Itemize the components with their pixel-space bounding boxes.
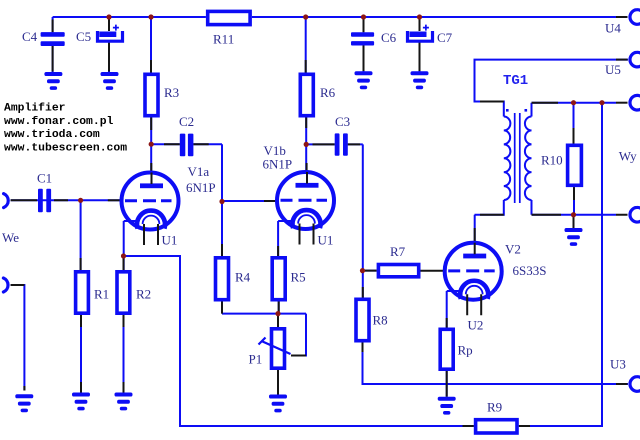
ground under C5 — [101, 72, 119, 90]
wire black stub R7 — [364, 270, 445, 272]
svg-text:TG1: TG1 — [503, 73, 528, 89]
capacitor C2 — [180, 134, 186, 157]
ground under input2 — [15, 394, 33, 412]
node V1b grid R4 — [219, 199, 224, 204]
svg-text:U1: U1 — [318, 232, 334, 247]
wire black stub R3 — [150, 60, 152, 130]
wire input2 to ground — [11, 285, 25, 391]
resistor R6 — [300, 74, 313, 115]
tube V1b cathode arc — [293, 210, 321, 228]
wire TG1 primary bottom to V2 — [475, 200, 504, 215]
resistor R9 — [476, 420, 517, 433]
svg-text:Rp: Rp — [458, 343, 473, 358]
wire input We to grid V1a — [11, 199, 122, 201]
wire R8 to U3 line — [363, 343, 629, 385]
svg-text:www.fonar.com.pl: www.fonar.com.pl — [4, 116, 114, 128]
svg-text:R8: R8 — [373, 313, 388, 328]
node rail C6 — [361, 14, 366, 19]
svg-text:C1: C1 — [37, 171, 52, 186]
wire black stub U4 connector — [616, 16, 628, 18]
wire black stub R4 — [221, 244, 223, 314]
svg-text:C3: C3 — [335, 114, 350, 129]
connector Wy bottom — [630, 207, 640, 222]
capacitor C4 — [41, 32, 65, 37]
wire black stub P1 wiper — [291, 355, 306, 357]
node V1a grid R1 — [78, 198, 83, 203]
resistor R4 — [216, 258, 229, 300]
wire C3 node row — [306, 143, 363, 145]
wire black stub C5 — [108, 20, 110, 72]
svg-text:U2: U2 — [468, 318, 484, 333]
wire C3 to R7/R8 node — [363, 144, 377, 297]
resistor R8 — [356, 299, 369, 340]
wire black stub C1 input — [11, 199, 68, 201]
svg-text:www.tubescreen.com: www.tubescreen.com — [4, 143, 127, 155]
wire feedback bottom left — [124, 256, 474, 426]
tube V2 cathode arc — [460, 281, 488, 299]
svg-text:V1a: V1a — [188, 164, 210, 179]
wire C2 to V1b grid and R4 — [222, 144, 277, 256]
tube V2 heater legs — [467, 294, 481, 315]
wire black stub C3 — [313, 143, 361, 145]
resistor Rp — [440, 329, 453, 369]
connector U4 — [630, 10, 640, 25]
wire R5 bottom lead — [278, 302, 280, 314]
tube V2 heater dome — [466, 286, 483, 294]
wire TG1 ground lead — [573, 215, 575, 228]
wire R3 leads — [150, 17, 152, 173]
wire C7 leads — [419, 17, 421, 72]
transformer TG1 primary winding — [504, 117, 511, 201]
wire C5 leads — [108, 17, 110, 73]
resistor R5 — [272, 258, 285, 300]
wire V2 cathode tap to Rp — [447, 291, 461, 328]
tube V1a grid dashes — [125, 199, 172, 202]
node rail C5 — [106, 14, 111, 19]
wire black stub U5 connector — [616, 59, 628, 61]
svg-text:V2: V2 — [505, 242, 521, 257]
wire TG1 secondary bottom line — [532, 200, 617, 215]
svg-text:C2: C2 — [179, 114, 194, 129]
connector We input1 — [4, 194, 9, 208]
tube V2 grid dashes — [448, 269, 495, 272]
svg-text:Amplifier: Amplifier — [4, 102, 66, 114]
svg-text:6N1P: 6N1P — [186, 180, 216, 195]
ground under C4 — [44, 72, 62, 90]
wire C6 leads — [363, 17, 365, 72]
svg-text:C4: C4 — [22, 29, 38, 44]
svg-text:R2: R2 — [136, 287, 151, 302]
wire black stub C7 — [419, 20, 421, 72]
wire black stub R2 — [123, 258, 125, 394]
resistor R2 — [117, 272, 130, 313]
node rail C7 — [417, 14, 422, 19]
wire black stub U3 connector — [616, 383, 628, 385]
wire black stub R8 — [362, 287, 364, 352]
svg-text:P1: P1 — [249, 352, 263, 367]
svg-text:U1: U1 — [162, 233, 178, 248]
svg-text:R6: R6 — [320, 85, 336, 100]
resistor R7 — [378, 265, 418, 277]
svg-text:R7: R7 — [390, 244, 406, 259]
connector U5 — [630, 52, 640, 67]
wire R1 leads — [80, 200, 82, 394]
wire C4 leads — [52, 17, 54, 73]
capacitor C3 — [335, 133, 340, 155]
wire black stub R1 — [80, 258, 82, 394]
wire black stub C6 — [363, 20, 365, 72]
svg-text:U4: U4 — [605, 21, 621, 36]
node V1a anode C2 — [149, 142, 154, 147]
tube V1b grid dashes — [281, 199, 328, 202]
potentiometer P1 wiper arrow — [259, 338, 291, 355]
resistor R10 — [568, 145, 582, 185]
wire R2 bottom lead — [123, 315, 125, 394]
ground under R2 — [115, 393, 133, 411]
node rail R6 — [303, 14, 308, 19]
wire V1a cathode tap to R2 — [124, 221, 138, 270]
wire black stub V1a grid — [108, 199, 122, 201]
ground under C7 — [411, 71, 429, 89]
connector Wy top — [630, 95, 640, 110]
tube V1b heater legs — [300, 224, 314, 245]
node rail R3 — [148, 14, 153, 19]
tube V1b heater dome — [298, 215, 315, 223]
node secondary R10 bottom — [571, 212, 576, 217]
wire R6 leads — [305, 17, 308, 173]
ground under C6 — [355, 71, 373, 89]
wire black stub P1 — [277, 314, 279, 395]
capacitor C5 electrolytic — [98, 25, 123, 42]
ground under R1 — [72, 393, 90, 411]
wire black stub R6 — [305, 60, 308, 128]
wire black stub C4 — [52, 20, 54, 72]
wire V1b cathode tap to R5 — [278, 221, 292, 256]
tube V2 anode — [463, 243, 486, 259]
wire black stub V1b anode — [306, 163, 308, 173]
wire V2 anode riser — [474, 215, 476, 243]
tube V2 envelope — [445, 243, 502, 300]
svg-text:R4: R4 — [235, 270, 251, 285]
connector We input2 — [3, 278, 8, 292]
capacitor C1 — [38, 189, 43, 213]
wire black stub R10 — [573, 128, 576, 200]
svg-text:U5: U5 — [605, 62, 621, 77]
node secondary R10 top — [571, 100, 576, 105]
capacitor C6 — [351, 32, 374, 37]
wire black stub input2 — [11, 285, 25, 391]
svg-text:C6: C6 — [381, 30, 397, 45]
node R4 R5 P1 — [275, 311, 280, 316]
tube V1a anode — [140, 173, 163, 189]
tube V1b envelope — [277, 172, 334, 229]
wire black stub TG1 secondary — [532, 103, 562, 215]
svg-text:R1: R1 — [94, 287, 109, 302]
wire U5 to TG1 primary top — [475, 60, 629, 117]
svg-text:C5: C5 — [76, 29, 91, 44]
transformer TG1 core — [515, 113, 520, 203]
svg-text:6S33S: 6S33S — [513, 263, 547, 278]
wire black stub R5 — [277, 246, 280, 312]
wire R4/R5/P1 junction row — [222, 314, 306, 356]
wire black stub TG1 primary — [480, 102, 504, 215]
svg-text:R11: R11 — [213, 32, 234, 47]
tube V1a heater legs — [144, 224, 158, 245]
svg-text:Wy: Wy — [619, 149, 637, 164]
tube V1a cathode arc — [137, 211, 165, 229]
wire R4 bottom lead — [221, 302, 223, 314]
svg-text:R10: R10 — [541, 153, 563, 168]
svg-text:R3: R3 — [164, 85, 179, 100]
wire black stub TG1 ground — [573, 216, 575, 228]
wire black stub Wy top connector — [616, 102, 628, 104]
wire R10 leads — [573, 103, 576, 215]
wire C2 node row — [151, 143, 222, 145]
wire Rp bottom lead — [446, 371, 448, 397]
wire R9 to output feedback riser — [519, 103, 602, 426]
ground under TG1 secondary — [565, 228, 583, 246]
node V1a cathode R2 — [121, 253, 126, 258]
connector U3 — [630, 377, 640, 392]
transformer TG1 secondary winding — [525, 117, 532, 201]
svg-text:U3: U3 — [610, 357, 626, 372]
node secondary feedback — [599, 100, 604, 105]
svg-text:We: We — [2, 230, 19, 245]
wire black stub C2 — [164, 143, 209, 145]
node R7 R8 — [360, 268, 365, 273]
svg-text:R5: R5 — [291, 270, 306, 285]
tube V1a heater dome — [143, 216, 160, 224]
wire black stub Wy bottom connector — [616, 214, 628, 216]
wire black stub R9 — [463, 425, 531, 427]
transformer TG1 polarity dots — [506, 109, 527, 112]
potentiometer P1 body — [272, 329, 285, 368]
svg-text:www.trioda.com: www.trioda.com — [4, 129, 100, 141]
ground under P1 — [269, 395, 287, 413]
resistor R1 — [76, 272, 89, 313]
node V1b anode C3 — [304, 142, 309, 147]
wire top B+ rail — [53, 16, 616, 18]
svg-text:6N1P: 6N1P — [263, 157, 293, 172]
wire black stub V2 anode — [474, 228, 476, 243]
wire black stub V1a anode — [150, 163, 152, 173]
svg-text:C7: C7 — [437, 30, 453, 45]
wire P1 leads — [277, 314, 279, 395]
resistor R3 — [145, 74, 158, 115]
tube V1a envelope — [122, 173, 179, 230]
capacitor C7 electrolytic — [408, 25, 433, 42]
tube V1b anode — [296, 172, 319, 188]
wire black stub V1b grid — [264, 200, 277, 202]
resistor R11 — [208, 11, 250, 24]
wire black stub Rp — [446, 318, 448, 397]
svg-text:R9: R9 — [487, 400, 502, 415]
wire TG1 secondary top line — [532, 103, 617, 117]
ground under Rp — [438, 397, 456, 415]
